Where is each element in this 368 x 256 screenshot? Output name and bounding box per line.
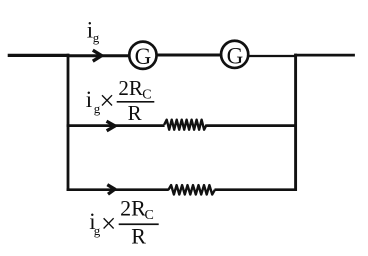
- wire left vertical rail: [67, 54, 70, 191]
- svg-text:R: R: [131, 224, 146, 249]
- galvanometer G2 circle: [221, 41, 248, 68]
- svg-text:2R: 2R: [118, 76, 143, 100]
- wire top branch left segment: [67, 54, 130, 57]
- wire top branch between galvanometers: [156, 54, 221, 57]
- wire bottom branch left segment: [67, 188, 169, 191]
- arrow middle branch: [107, 121, 116, 131]
- galvanometer G1 circle: [129, 42, 156, 69]
- wire right vertical rail: [294, 54, 297, 191]
- svg-text:×: ×: [101, 209, 116, 239]
- svg-text:R: R: [128, 101, 142, 125]
- arrow top branch (current ig): [93, 50, 102, 61]
- arrow bottom branch: [107, 185, 115, 195]
- svg-text:G: G: [227, 43, 244, 68]
- wire middle branch right segment: [206, 124, 297, 127]
- resistor bottom branch: [168, 185, 215, 194]
- resistor middle branch: [164, 120, 206, 130]
- wire bottom branch right segment: [215, 188, 298, 191]
- svg-text:g: g: [94, 223, 101, 238]
- svg-text:i: i: [86, 87, 92, 112]
- wire middle branch left segment: [67, 124, 165, 127]
- wire top branch right segment: [248, 55, 295, 57]
- svg-text:2R: 2R: [120, 195, 146, 220]
- svg-text:G: G: [135, 44, 152, 69]
- svg-text:×: ×: [99, 86, 114, 116]
- wire right stub: [294, 54, 355, 57]
- svg-text:C: C: [145, 208, 154, 223]
- svg-text:C: C: [142, 87, 151, 102]
- svg-text:g: g: [93, 30, 100, 45]
- wire left stub: [8, 54, 70, 57]
